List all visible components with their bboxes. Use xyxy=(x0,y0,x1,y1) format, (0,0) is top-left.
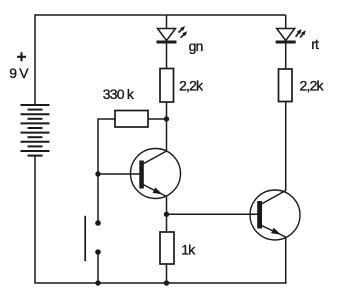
node emitter/1k/base2 junction xyxy=(164,212,169,217)
transistor Q1 base bar xyxy=(139,161,144,189)
transistor Q2 base bar xyxy=(257,201,262,229)
transistor Q2 collector line xyxy=(261,191,286,205)
svg-text:9 V: 9 V xyxy=(9,65,29,81)
wire left rail lower (battery minus to bottom rail) xyxy=(34,156,36,283)
transistor Q1 emitter line xyxy=(142,184,167,197)
LED D2 cathode bar xyxy=(276,41,296,44)
node R1/330k junction xyxy=(164,116,169,121)
svg-text:gn: gn xyxy=(189,38,203,54)
wire R2 to Q2 collector xyxy=(285,102,287,191)
node 1k/bottom rail junction xyxy=(164,280,169,285)
resistor R4 1k box xyxy=(160,232,174,264)
wire left rail upper (battery plus to top rail) xyxy=(34,14,36,105)
node base/switch junction xyxy=(95,171,100,176)
resistor R3 330k box xyxy=(115,111,148,128)
LED D1 light arrow 1 xyxy=(179,26,186,33)
node switch/bottom rail junction xyxy=(95,280,100,285)
svg-text:2,2k: 2,2k xyxy=(179,78,204,94)
wire switch from base node down xyxy=(97,174,99,223)
wire Q2 base from node xyxy=(167,213,258,215)
wire 1k to bottom rail xyxy=(166,264,168,283)
svg-text:1k: 1k xyxy=(181,242,196,258)
switch S1 actuator bar xyxy=(84,216,86,261)
transistor Q1 collector line xyxy=(142,151,167,165)
svg-text:rt: rt xyxy=(311,36,319,52)
LED D2 light arrow 1 xyxy=(296,29,302,37)
transistor Q2 circle xyxy=(250,190,300,240)
battery BT1 xyxy=(21,105,50,156)
wire 330k right to junction xyxy=(148,118,167,120)
switch S1 top contact xyxy=(95,220,101,226)
wire top rail xyxy=(35,14,286,16)
resistor R2 2,2k box xyxy=(279,69,293,102)
LED D1 light arrow 2 xyxy=(181,31,188,38)
transistor Q2 emitter arrow xyxy=(271,228,281,235)
transistor Q1 emitter arrow xyxy=(153,188,163,195)
LED D2 red triangle xyxy=(277,29,295,41)
LED D1 cathode bar xyxy=(157,41,177,44)
switch S1 bottom contact xyxy=(95,249,101,255)
wire R1 to Q1 collector xyxy=(166,102,168,152)
wire Q2 emitter to bottom rail xyxy=(285,237,287,284)
LED D2 light arrow 2 xyxy=(300,30,306,37)
wire switch to bottom rail xyxy=(97,252,99,283)
label battery plus xyxy=(17,52,26,61)
wire LED1 anode from top rail xyxy=(166,15,168,29)
wire node to R4 1k xyxy=(166,214,168,232)
wire LED1 cathode to R1 xyxy=(166,42,168,69)
wire Q1 emitter down to node xyxy=(166,197,168,215)
wire 330k left and down to base node xyxy=(98,119,115,174)
LED D1 green triangle xyxy=(158,29,176,41)
wire Q1 base xyxy=(98,173,140,175)
wire LED2 anode from top rail xyxy=(285,15,287,29)
svg-text:330 k: 330 k xyxy=(103,86,135,102)
transistor Q1 circle xyxy=(131,149,181,199)
svg-text:2,2k: 2,2k xyxy=(300,78,325,94)
wire bottom rail xyxy=(34,282,286,284)
transistor Q2 emitter line xyxy=(261,225,286,237)
wire LED2 cathode to R2 xyxy=(285,42,287,69)
resistor R1 2,2k box xyxy=(160,69,174,103)
